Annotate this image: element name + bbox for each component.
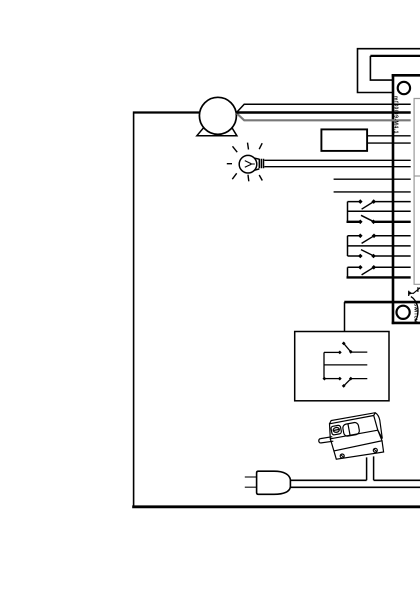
- svg-text:SWITCH: SWITCH: [413, 303, 418, 323]
- svg-text:mf30/09-M4.1: mf30/09-M4.1: [392, 96, 398, 134]
